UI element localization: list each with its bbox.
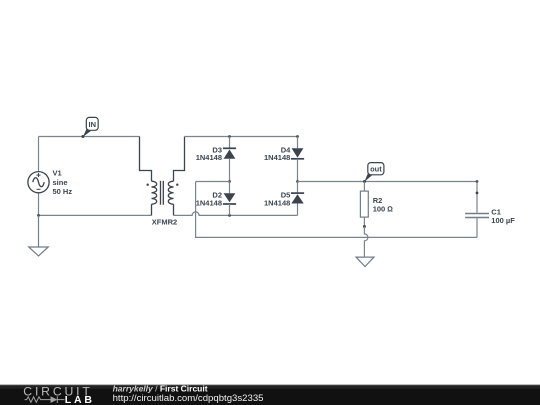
wire R2 ground stem with hop over bottom run: [364, 227, 368, 257]
core lines: [160, 181, 162, 205]
voltage source V1: [28, 172, 49, 193]
ground GND2: [356, 257, 374, 266]
secondary winding: [168, 181, 173, 204]
footer bar: [0, 385, 540, 405]
resistor R2: [360, 182, 368, 227]
node R2 bottom terminal dot: [363, 225, 366, 228]
wire bottom rail right with hop over node-B wire: [174, 212, 298, 215]
svg-text:1N4148: 1N4148: [264, 199, 290, 208]
svg-text:IN: IN: [89, 120, 97, 129]
logo zigzag + diode: [25, 396, 65, 403]
svg-text:out: out: [370, 165, 382, 174]
svg-text:V1: V1: [53, 169, 62, 178]
node C mid-right junction dot: [296, 180, 299, 183]
transformer XFMR2: [140, 137, 185, 216]
diode D2: [223, 182, 236, 216]
secondary bottom lead: [173, 204, 175, 215]
svg-text:R2: R2: [373, 196, 383, 205]
primary top lead: [140, 137, 152, 182]
primary winding: [152, 181, 157, 204]
node dot top D3: [228, 135, 231, 138]
svg-text:LAB: LAB: [65, 394, 95, 405]
node out flag: [363, 163, 384, 183]
wire V1 bottom stem: [38, 193, 40, 216]
node dot top D4: [296, 135, 299, 138]
wire out rail: [298, 181, 478, 183]
wire bottom rail left (primary ground): [39, 214, 152, 216]
ground GND1: [29, 215, 49, 256]
node ground junction dot: [37, 214, 40, 217]
node B mid-left junction dot: [228, 180, 231, 183]
svg-text:50 Hz: 50 Hz: [53, 187, 73, 196]
diode D4: [291, 137, 304, 182]
svg-text:http://circuitlab.com/cdpqbtg3: http://circuitlab.com/cdpqbtg3s2335: [113, 393, 264, 404]
transformer phase dots: [147, 184, 149, 186]
svg-text:sine: sine: [53, 178, 68, 187]
svg-text:1N4148: 1N4148: [196, 199, 222, 208]
svg-text:XFMR2: XFMR2: [152, 217, 177, 226]
wire top rail left (IN net): [39, 136, 140, 138]
node dot D2 bottom: [228, 214, 231, 217]
wire node B vertical + bottom run to C1: [196, 182, 477, 238]
diode D3: [223, 137, 236, 182]
primary bottom lead: [151, 204, 153, 215]
wire top rail right (secondary to bridge): [185, 136, 298, 138]
capacitor C1: [465, 180, 489, 237]
wire node B horizontal: [196, 181, 230, 183]
svg-text:100 Ω: 100 Ω: [373, 205, 394, 214]
svg-text:1N4148: 1N4148: [264, 153, 290, 162]
svg-text:100 µF: 100 µF: [491, 216, 515, 225]
wire V1 top stem: [38, 137, 40, 172]
diode D5: [291, 182, 304, 216]
node IN flag: [81, 117, 98, 138]
svg-text:1N4148: 1N4148: [196, 153, 222, 162]
secondary top lead: [174, 137, 185, 182]
